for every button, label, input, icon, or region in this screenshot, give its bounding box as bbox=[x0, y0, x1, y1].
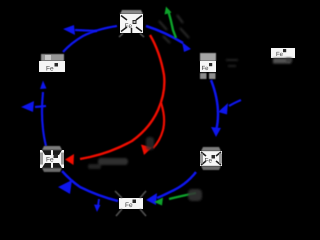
svg-text:Fe: Fe bbox=[46, 157, 54, 164]
gray marks between UR and FR complexes bbox=[226, 60, 238, 66]
svg-text:Fe: Fe bbox=[276, 51, 284, 58]
green arrow bottom (points left) bbox=[154, 193, 196, 206]
wire: cycle arc UR to R (blue) with arrowhead bbox=[211, 80, 221, 137]
small arrow below bottom-left arc (blue, points down) bbox=[94, 199, 101, 212]
wire: cycle arc B to LL (blue) with arrowhead bbox=[58, 171, 118, 201]
gray smudge right of bottom green arrow bbox=[188, 189, 202, 201]
Fe complex UR (upper right) bbox=[200, 53, 216, 79]
svg-text:Fe: Fe bbox=[202, 65, 210, 72]
small arrow near top (blue, points left) bbox=[63, 25, 97, 35]
wire: cycle arc UL to T (blue) bbox=[63, 26, 117, 52]
wire: cycle arc LL to UL (blue) with arrowhead bbox=[40, 81, 47, 147]
svg-text:Fe: Fe bbox=[46, 66, 54, 73]
wire: cycle arc T to UR (blue) with arrowhead bbox=[146, 26, 191, 52]
svg-text:Fe: Fe bbox=[205, 158, 213, 165]
red shunt short branch (points down) bbox=[141, 103, 164, 155]
Fe complex T (top, resting state) bbox=[119, 10, 144, 37]
small arrow right side (blue, points lower-left) bbox=[218, 100, 241, 115]
red shunt arrow: stem and long branch to LL (points left) bbox=[65, 35, 164, 165]
Fe complex UL (upper left) bbox=[39, 54, 65, 73]
wire: cycle arc R to B (blue) with arrowhead bbox=[146, 172, 196, 205]
svg-text:Fe: Fe bbox=[125, 202, 133, 209]
gray smudge near red short branch head bbox=[146, 137, 154, 150]
Fe complex FR (far right, outside cycle) bbox=[271, 48, 295, 64]
small arrow left side (blue, points left) bbox=[21, 101, 46, 112]
gray smudge label near lower-left (H2O2) bbox=[88, 158, 128, 169]
Fe complex R (right) bbox=[200, 147, 222, 170]
gray text smudges near top green arrow bbox=[159, 15, 189, 43]
green arrow top (points up) bbox=[165, 7, 177, 39]
svg-text:Fe: Fe bbox=[125, 23, 133, 30]
Fe complex LL (lower left, compound I) bbox=[40, 146, 64, 172]
Fe complex B (bottom) bbox=[115, 191, 146, 217]
